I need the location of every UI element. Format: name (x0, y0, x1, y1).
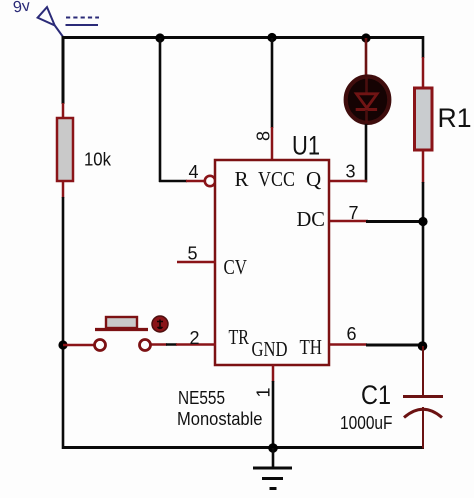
resistor R2 pin top (62, 103, 65, 119)
resistor R2 10k body (57, 118, 73, 181)
svg-text:TH: TH (300, 335, 323, 359)
svg-text:U1: U1 (292, 131, 320, 161)
svg-text:8: 8 (254, 131, 274, 141)
pin 5 stub (177, 261, 216, 264)
wire top-right corner down (422, 36, 425, 58)
pin label 4 (189, 162, 199, 182)
IC pin name VCC (258, 167, 295, 191)
pin label 2 (190, 328, 200, 348)
svg-text:TR: TR (229, 325, 250, 349)
wire pin7 to right rail (366, 220, 424, 223)
pin 6 stub (329, 343, 367, 346)
pin label 6 (347, 324, 357, 344)
pin label 7 (349, 203, 359, 223)
IC pin name Q (306, 167, 321, 191)
svg-text:1: 1 (254, 387, 274, 397)
svg-text:6: 6 (347, 324, 357, 344)
op IC U1 body (215, 160, 329, 365)
wire pin6 to right rail (366, 344, 423, 347)
wire pin4 branch vertical (159, 38, 162, 182)
svg-text:10k: 10k (84, 150, 112, 170)
svg-text:Monostable: Monostable (177, 409, 263, 429)
wire pin4 branch horizontal (159, 180, 187, 183)
svg-text:C1: C1 (361, 380, 391, 410)
node junction pin8 (267, 33, 276, 42)
node junction pin7 (418, 217, 427, 226)
svg-text:R: R (235, 167, 249, 191)
node junction pin4 branch (155, 33, 164, 42)
pushbutton right terminal (140, 340, 151, 351)
resistor R2 pin bottom (62, 180, 65, 198)
wire right rail mid (422, 182, 425, 347)
pin 4 stub (186, 180, 205, 183)
IC pin name TR (229, 325, 250, 349)
node junction pin6 C1 (418, 341, 428, 351)
svg-text:2: 2 (190, 328, 200, 348)
resistor R1 pin top (422, 57, 425, 89)
power supply dashed line (66, 17, 99, 19)
label 1000uF (340, 413, 393, 433)
pin 2 stub inner (176, 343, 216, 346)
label 10k (84, 150, 112, 170)
IC pin name DC (297, 207, 326, 231)
node junction ground (268, 443, 278, 453)
svg-text:5: 5 (188, 244, 198, 264)
pin label 5 (188, 244, 198, 264)
ground bar 1 (253, 467, 292, 470)
svg-text:7: 7 (349, 203, 359, 223)
resistor R1 body (415, 88, 433, 150)
wire left rail lower (62, 197, 65, 449)
ground bar 3 (270, 487, 277, 490)
pin label 3 (346, 162, 356, 182)
label NE555 (178, 388, 225, 408)
pin 4 inverting bubble (205, 176, 215, 186)
pin label 1 rotated (254, 387, 274, 397)
svg-text:9v: 9v (12, 0, 31, 17)
resistor R1 pin bottom (422, 149, 425, 183)
wire pin8 vertical (271, 38, 274, 128)
pin label 8 rotated (254, 131, 274, 141)
svg-text:NE555: NE555 (178, 388, 225, 408)
svg-text:Q: Q (306, 167, 321, 191)
IC pin name R (235, 167, 249, 191)
label U1 (292, 131, 320, 161)
pushbutton actuation marker (152, 316, 168, 332)
label R1 (438, 103, 472, 133)
pin 7 stub (330, 220, 368, 223)
pin 3 stub (330, 180, 367, 183)
svg-text:4: 4 (189, 162, 199, 182)
svg-text:CV: CV (224, 255, 248, 279)
capacitor C1 bottom plate curved (404, 409, 442, 417)
pin 2 stub outer (150, 343, 167, 346)
power supply flag triangle (38, 7, 64, 37)
node junction pushbutton (58, 340, 67, 349)
pin 1 stub (272, 365, 275, 382)
wire bottom rail (62, 446, 424, 449)
pushbutton left lead (63, 344, 95, 347)
LED D1 body (346, 77, 390, 124)
node junction LED branch (361, 33, 370, 42)
wire pin2 middle (166, 343, 177, 346)
pushbutton left terminal (95, 340, 106, 351)
capacitor C1 bottom lead (422, 407, 424, 449)
power supply underline (66, 24, 99, 26)
wire top rail (62, 36, 425, 39)
pushbutton bar (95, 328, 148, 331)
label C1 (361, 380, 391, 410)
IC pin name TH (300, 335, 323, 359)
capacitor C1 top plate (403, 395, 443, 398)
wire pin1 to bottom rail (272, 381, 275, 448)
wire left rail upper (62, 36, 65, 104)
ground stem (272, 448, 275, 468)
svg-text:R1: R1 (438, 103, 472, 133)
IC pin name CV (224, 255, 248, 279)
LED anode wire (365, 38, 368, 78)
svg-text:GND: GND (252, 337, 288, 361)
capacitor C1 top lead (422, 346, 424, 396)
pushbutton cap (106, 317, 137, 328)
IC pin name GND (252, 337, 288, 361)
pin 8 stub (271, 127, 274, 160)
svg-text:1000uF: 1000uF (340, 413, 393, 433)
LED cathode wire (365, 124, 368, 182)
svg-text:DC: DC (297, 207, 326, 231)
power supply 9v label (12, 0, 31, 17)
svg-text:3: 3 (346, 162, 356, 182)
svg-text:VCC: VCC (258, 167, 295, 191)
label Monostable (177, 409, 263, 429)
ground bar 2 (262, 477, 283, 480)
